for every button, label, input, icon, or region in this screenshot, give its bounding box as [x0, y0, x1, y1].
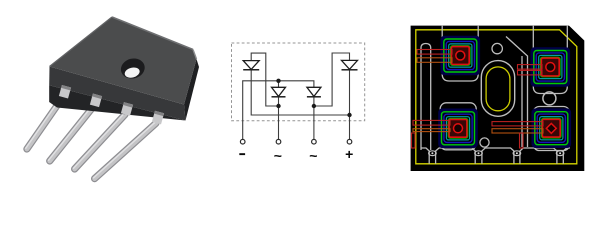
svg-text:~: ~: [274, 148, 282, 164]
svg-text:+: +: [345, 146, 353, 162]
svg-text:~: ~: [309, 148, 317, 164]
